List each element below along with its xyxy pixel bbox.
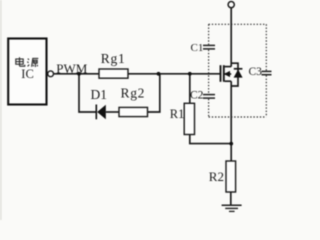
svg-text:IC: IC bbox=[21, 67, 34, 81]
svg-text:PWM: PWM bbox=[56, 61, 88, 76]
svg-text:Rg1: Rg1 bbox=[101, 51, 126, 66]
svg-text:R1: R1 bbox=[170, 107, 185, 121]
svg-text:D1: D1 bbox=[91, 87, 108, 102]
svg-text:C3: C3 bbox=[249, 66, 263, 78]
svg-text:Rg2: Rg2 bbox=[121, 85, 146, 100]
svg-text:C2: C2 bbox=[190, 89, 204, 101]
svg-text:R2: R2 bbox=[209, 169, 224, 184]
svg-text:C1: C1 bbox=[191, 42, 204, 54]
